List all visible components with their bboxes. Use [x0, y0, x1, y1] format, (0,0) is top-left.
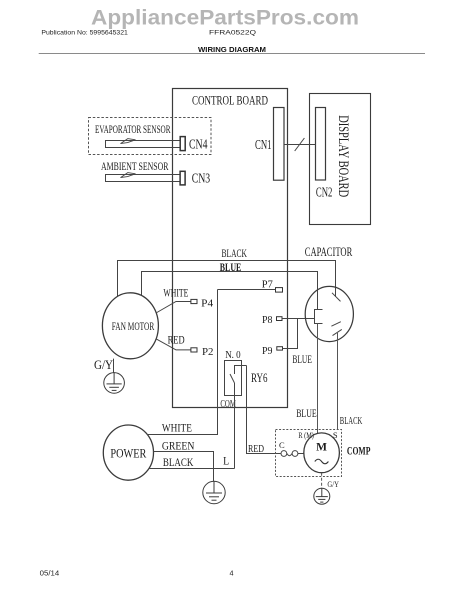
wire fan to ground: [113, 359, 115, 373]
svg-text:CN3: CN3: [192, 172, 211, 187]
svg-text:R (M): R (M): [298, 430, 314, 440]
wire white power to P7: [147, 290, 218, 435]
motor tilde: [315, 459, 329, 464]
svg-text:CAPACITOR: CAPACITOR: [305, 245, 353, 259]
svg-text:N. 0: N. 0: [225, 349, 241, 361]
svg-text:CN4: CN4: [189, 138, 208, 153]
wire black power to relay COM: [149, 468, 235, 470]
control board U-CB box: [173, 89, 288, 408]
svg-text:BLACK: BLACK: [222, 248, 248, 260]
power source P1: [103, 425, 153, 480]
wire relay NO down to red: [247, 366, 281, 454]
svg-text:EVAPORATOR SENSOR: EVAPORATOR SENSOR: [95, 122, 171, 136]
capacitor left terminal bracket: [315, 310, 323, 324]
svg-text:4: 4: [230, 569, 234, 578]
wire green power to ground: [153, 452, 213, 482]
svg-text:BLACK: BLACK: [340, 415, 363, 427]
svg-text:Publication No: 5995645321: Publication No: 5995645321: [41, 30, 128, 37]
svg-text:P4: P4: [201, 297, 214, 309]
fan motor FM1: [102, 293, 158, 359]
svg-text:RY6: RY6: [251, 371, 268, 385]
wire BLACK fan-to-capacitor: [118, 261, 336, 297]
svg-text:WHITE: WHITE: [163, 287, 188, 299]
wire P9 blue: [283, 319, 298, 349]
svg-text:WHITE: WHITE: [162, 421, 192, 435]
svg-text:COMP: COMP: [347, 444, 371, 458]
wire fan red to P2: [156, 339, 191, 350]
svg-text:P2: P2: [202, 346, 214, 358]
wire BLUE capacitor to compressor: [317, 324, 319, 434]
svg-text:CN1: CN1: [255, 138, 272, 153]
svg-text:C: C: [279, 440, 285, 450]
svg-text:CONTROL BOARD: CONTROL BOARD: [192, 93, 268, 107]
svg-text:L: L: [223, 454, 229, 468]
svg-text:AMBIENT SENSOR: AMBIENT SENSOR: [101, 159, 169, 173]
compressor dashed box: [276, 430, 342, 477]
svg-text:FAN MOTOR: FAN MOTOR: [112, 319, 155, 333]
evaporator sensor dashed box: [89, 118, 212, 155]
wire BLACK capacitor to compressor S: [337, 333, 339, 430]
terminal P7: [276, 288, 283, 293]
wire P8 to capacitor: [282, 318, 315, 320]
ambient sensor thermistor mark: [121, 173, 136, 178]
wire fan white to P4: [156, 302, 191, 314]
wire compressor to ground (dashed): [321, 473, 323, 488]
fan ground symbol: [104, 373, 125, 394]
svg-text:RED: RED: [168, 335, 185, 347]
terminal P2: [191, 348, 197, 352]
svg-text:05/14: 05/14: [40, 569, 60, 578]
power ground symbol: [203, 481, 225, 503]
overload protector OL1: [281, 451, 304, 457]
svg-text:P8: P8: [262, 314, 273, 326]
capacitor C1 body: [305, 286, 353, 341]
relay RY6 contact stub: [235, 366, 247, 375]
svg-text:CN2: CN2: [316, 186, 333, 201]
svg-text:BLUE: BLUE: [292, 354, 312, 366]
wire P7 white: [218, 289, 276, 291]
svg-text:P7: P7: [262, 279, 273, 291]
relay RY6 blade: [230, 374, 235, 383]
connector CN2: [316, 108, 326, 181]
svg-text:AppliancePartsPros.com: AppliancePartsPros.com: [91, 7, 359, 30]
svg-text:M: M: [316, 442, 327, 454]
terminal P8: [277, 317, 283, 321]
wire CN1 to CN2: [284, 144, 316, 146]
evaporator sensor body: [106, 141, 181, 148]
svg-text:FFRA0522Q: FFRA0522Q: [209, 30, 256, 37]
title rule: [39, 53, 425, 55]
svg-text:G/Y: G/Y: [327, 479, 339, 489]
svg-text:BLACK: BLACK: [163, 455, 194, 469]
wire relay COM down to power black: [234, 383, 236, 469]
svg-text:POWER: POWER: [110, 445, 146, 460]
svg-text:G/Y: G/Y: [94, 358, 113, 372]
terminal P4: [191, 299, 197, 303]
bus slash on CN1-CN2 wire: [295, 138, 305, 151]
compressor ground symbol: [314, 488, 330, 504]
svg-text:RED: RED: [248, 444, 264, 455]
svg-text:GREEN: GREEN: [162, 439, 195, 453]
svg-text:DISPLAY BOARD: DISPLAY BOARD: [335, 115, 351, 197]
ambient sensor body: [106, 175, 181, 182]
connector CN3: [180, 171, 185, 185]
compressor motor M1: [304, 433, 340, 473]
svg-text:BLUE: BLUE: [296, 408, 317, 420]
connector CN4: [180, 137, 185, 151]
display board box: [310, 94, 371, 225]
relay RY6 box: [225, 361, 242, 396]
svg-text:P9: P9: [262, 345, 273, 357]
terminal P9: [277, 347, 283, 350]
svg-text:COM: COM: [220, 398, 236, 410]
wire BLUE fan-to-capacitor: [142, 272, 318, 310]
svg-text:WIRING DIAGRAM: WIRING DIAGRAM: [198, 45, 266, 54]
connector CN1: [274, 108, 285, 181]
capacitor top plate mark: [332, 293, 341, 302]
evaporator sensor thermistor mark: [121, 139, 136, 144]
capacitor lower plate marks: [331, 322, 340, 327]
